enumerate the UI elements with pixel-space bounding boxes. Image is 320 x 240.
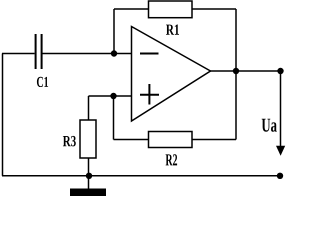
wire input left of C1 bbox=[2, 53, 35, 55]
wire bottom rail bbox=[2, 175, 280, 177]
wire noninverting input bbox=[89, 95, 132, 97]
wire top to R1 left bbox=[114, 8, 149, 10]
wire to R2 left bbox=[114, 139, 149, 141]
label Ua bbox=[262, 119, 277, 132]
resistor R1 bbox=[149, 1, 193, 18]
wire output bbox=[211, 70, 281, 72]
op-amp U1 bbox=[132, 27, 211, 122]
wire left rail bbox=[2, 54, 4, 176]
resistor R2 bbox=[149, 132, 193, 148]
label C1 bbox=[37, 77, 48, 87]
Ua arrowhead bbox=[276, 146, 285, 156]
bottom right junction dot bbox=[277, 173, 283, 179]
op-amp minus sign bbox=[140, 53, 159, 55]
node C junction dot bbox=[110, 93, 116, 99]
label R3 bbox=[63, 136, 76, 146]
output terminal dot bbox=[277, 68, 283, 74]
label R1 bbox=[166, 25, 179, 35]
wire node C down to R2 bbox=[113, 96, 115, 140]
label R2 bbox=[166, 154, 178, 165]
wire node B down to R3 bbox=[88, 96, 90, 120]
wire feedback vertical right bbox=[235, 9, 237, 140]
Ua arrow wire bbox=[280, 71, 282, 149]
ground bbox=[70, 189, 106, 197]
wire R2 right to feedback vertical bbox=[192, 139, 236, 141]
resistor R3 bbox=[80, 120, 96, 158]
wire R1 right to corner bbox=[192, 8, 236, 10]
wire R3 bottom to ground rail bbox=[88, 158, 90, 189]
wire C1 to inverting input bbox=[43, 53, 132, 55]
capacitor C1 bbox=[35, 34, 43, 69]
wire feedback up from node A bbox=[113, 9, 115, 54]
output junction dot bbox=[233, 68, 239, 74]
ground junction dot bbox=[86, 173, 92, 179]
node A junction dot bbox=[111, 50, 117, 56]
op-amp plus sign bbox=[140, 84, 159, 105]
